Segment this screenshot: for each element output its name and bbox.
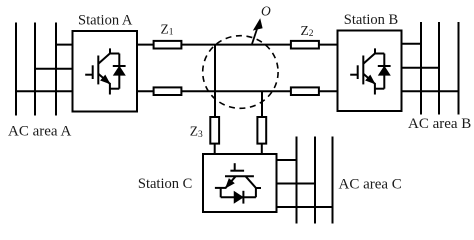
dashed node region O bbox=[203, 36, 278, 109]
AC area B bus bar 1 bbox=[420, 22, 422, 115]
wire Z3 right to Station C bbox=[261, 144, 263, 154]
svg-text:Z2: Z2 bbox=[301, 23, 314, 39]
AC area B bus bar 2 bbox=[438, 22, 440, 115]
svg-text:Z1: Z1 bbox=[161, 22, 174, 38]
wire Station B to bus3 (right) bbox=[402, 90, 459, 92]
wire Station C to bus2 (AC area C) bbox=[277, 183, 316, 185]
wire bus3 to Station A bbox=[56, 44, 73, 46]
svg-text:AC area B: AC area B bbox=[408, 116, 471, 132]
AC area C bus bar 1 bbox=[296, 137, 298, 224]
wire Z1 bottom to Z2 bottom bbox=[181, 90, 291, 92]
IGBT valve symbol U-B bbox=[350, 48, 390, 94]
impedance Z2 (negative pole) bbox=[291, 87, 319, 95]
impedance Z3 (left branch) bbox=[210, 117, 219, 144]
wire Station C to bus1 (AC area C) bbox=[277, 159, 297, 161]
wire Station C to bus3 (AC area C) bbox=[277, 206, 333, 208]
svg-text:AC area A: AC area A bbox=[8, 124, 71, 140]
node O arrow bbox=[252, 29, 257, 44]
converter Station B box bbox=[338, 31, 402, 112]
AC area C bus bar 3 bbox=[332, 137, 334, 224]
impedance Z1 (negative pole) bbox=[154, 87, 182, 95]
wire Z2 bottom to Station B bbox=[319, 90, 338, 92]
impedance Z2 (positive pole) bbox=[291, 41, 319, 49]
wire Station A to Z1 bottom bbox=[137, 90, 154, 92]
AC area A bus bar 3 bbox=[55, 23, 57, 116]
converter Station A box bbox=[73, 31, 138, 112]
impedance Z3 (right branch) bbox=[257, 117, 266, 144]
svg-text:Station C: Station C bbox=[138, 176, 192, 192]
AC area A bus bar 1 bbox=[15, 23, 17, 116]
svg-text:O: O bbox=[261, 3, 271, 18]
wire bus1 to Station A bbox=[16, 90, 73, 92]
svg-text:Z3: Z3 bbox=[190, 124, 203, 140]
wire DC node to Z3 left (vertical) bbox=[214, 45, 216, 117]
IGBT valve symbol U-A bbox=[85, 48, 125, 94]
svg-text:Station A: Station A bbox=[78, 13, 133, 29]
AC area A bus bar 2 bbox=[34, 23, 36, 116]
IGBT valve symbol U-C (rotated) bbox=[215, 163, 261, 203]
wire Station B to bus1 (right) bbox=[402, 43, 422, 45]
AC area C bus bar 2 bbox=[314, 137, 316, 224]
svg-text:AC area C: AC area C bbox=[339, 177, 402, 193]
converter Station C box bbox=[203, 154, 277, 212]
AC area B bus bar 3 bbox=[458, 22, 460, 115]
svg-text:Station B: Station B bbox=[344, 12, 398, 28]
wire Station A to Z1 top bbox=[137, 44, 154, 46]
wire bus2 to Station A bbox=[35, 68, 73, 70]
wire Z3 left to Station C bbox=[214, 144, 216, 154]
impedance Z1 (positive pole) bbox=[154, 41, 182, 49]
wire Station B to bus2 (right) bbox=[402, 67, 440, 69]
wire Z1 to Station B (top DC line) bbox=[181, 44, 337, 46]
wire DC node to Z3 right (vertical) bbox=[261, 91, 263, 117]
